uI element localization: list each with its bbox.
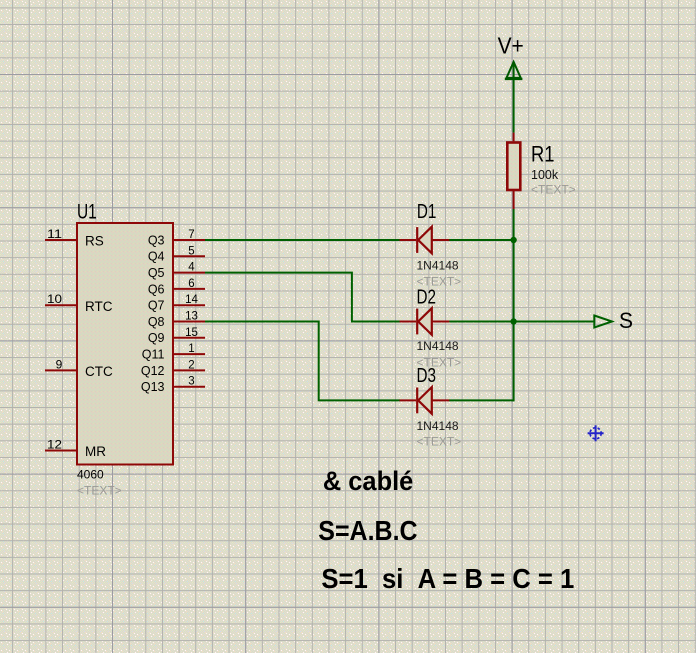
svg-text:Q4: Q4 bbox=[148, 250, 165, 264]
svg-text:Q7: Q7 bbox=[148, 299, 165, 313]
svg-text:11: 11 bbox=[47, 227, 62, 241]
svg-text:<TEXT>: <TEXT> bbox=[417, 275, 462, 289]
svg-text:3: 3 bbox=[188, 376, 194, 388]
svg-text:S: S bbox=[619, 308, 633, 333]
svg-text:7: 7 bbox=[188, 229, 194, 241]
svg-text:1: 1 bbox=[188, 343, 194, 355]
svg-text:15: 15 bbox=[185, 327, 198, 339]
svg-text:1N4148: 1N4148 bbox=[417, 339, 459, 353]
svg-text:D1: D1 bbox=[417, 201, 437, 223]
svg-text:Q8: Q8 bbox=[148, 315, 165, 329]
svg-text:14: 14 bbox=[185, 294, 198, 306]
svg-text:Q3: Q3 bbox=[148, 233, 165, 247]
svg-text:10: 10 bbox=[47, 292, 62, 306]
svg-text:R1: R1 bbox=[531, 142, 555, 167]
svg-text:Q11: Q11 bbox=[142, 348, 165, 362]
svg-text:100k: 100k bbox=[531, 168, 559, 182]
svg-text:RTC: RTC bbox=[85, 299, 113, 314]
svg-text:V+: V+ bbox=[498, 33, 524, 59]
svg-text:Q9: Q9 bbox=[148, 331, 165, 345]
svg-text:9: 9 bbox=[56, 357, 63, 371]
svg-text:<TEXT>: <TEXT> bbox=[417, 435, 462, 449]
svg-text:1N4148: 1N4148 bbox=[417, 419, 459, 433]
svg-text:Q13: Q13 bbox=[141, 380, 165, 394]
svg-text:12: 12 bbox=[47, 438, 62, 452]
svg-text:<TEXT>: <TEXT> bbox=[77, 484, 122, 498]
svg-text:Q12: Q12 bbox=[141, 364, 165, 378]
svg-text:MR: MR bbox=[85, 444, 106, 459]
svg-text:S=1 si A = B = C = 1: S=1 si A = B = C = 1 bbox=[321, 563, 574, 594]
svg-text:<TEXT>: <TEXT> bbox=[417, 356, 462, 370]
svg-text:Q6: Q6 bbox=[148, 282, 165, 296]
svg-text:CTC: CTC bbox=[85, 364, 113, 379]
svg-text:4060: 4060 bbox=[77, 468, 104, 482]
svg-text:13: 13 bbox=[185, 311, 198, 323]
svg-text:Q5: Q5 bbox=[148, 266, 165, 280]
svg-text:D2: D2 bbox=[417, 286, 437, 308]
svg-text:<TEXT>: <TEXT> bbox=[531, 183, 576, 197]
svg-text:1N4148: 1N4148 bbox=[417, 258, 459, 272]
svg-text:4: 4 bbox=[188, 262, 195, 274]
svg-text:& cablé: & cablé bbox=[323, 466, 413, 496]
svg-text:U1: U1 bbox=[77, 200, 97, 223]
svg-text:S=A.B.C: S=A.B.C bbox=[318, 515, 417, 546]
svg-text:6: 6 bbox=[188, 278, 194, 290]
svg-text:RS: RS bbox=[85, 234, 104, 249]
svg-text:5: 5 bbox=[188, 245, 194, 257]
svg-text:2: 2 bbox=[188, 359, 194, 371]
